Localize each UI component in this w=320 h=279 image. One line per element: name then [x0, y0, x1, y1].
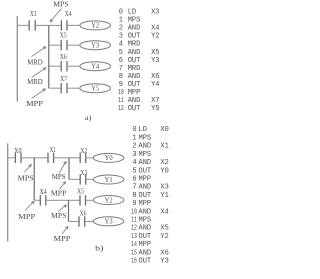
svg-text:MPP: MPP	[51, 189, 67, 198]
svg-text:12: 12	[118, 105, 124, 113]
contact X7	[61, 83, 67, 93]
svg-text:0: 0	[119, 9, 123, 17]
svg-text:X4: X4	[40, 187, 47, 196]
svg-text:5: 5	[119, 49, 123, 57]
svg-text:Y2: Y2	[160, 233, 168, 241]
svg-text:Y3: Y3	[151, 57, 159, 65]
arrow MPS2 to node2 (b)	[59, 162, 66, 174]
wire X0 to X1 through node 1	[21, 157, 48, 159]
svg-text:11: 11	[131, 217, 137, 225]
instruction list (b)	[131, 126, 169, 265]
svg-text:3: 3	[132, 151, 136, 159]
svg-text:2: 2	[119, 25, 123, 33]
wire X2 to coil Y0	[86, 157, 94, 159]
svg-text:16: 16	[131, 258, 137, 266]
svg-text:9: 9	[119, 81, 123, 89]
svg-text:MPP: MPP	[26, 99, 43, 108]
svg-text:MPS: MPS	[53, 0, 69, 8]
svg-text:X5: X5	[151, 49, 159, 57]
svg-text:Y1: Y1	[160, 192, 168, 200]
svg-text:MPP: MPP	[139, 175, 152, 183]
wire X7 to coil Y5	[67, 87, 80, 89]
svg-text:Y3: Y3	[105, 219, 114, 226]
svg-text:MPS: MPS	[139, 134, 152, 142]
arrow MPS1 to node1 (b)	[24, 165, 31, 173]
contact X3 (b)	[80, 174, 86, 184]
svg-text:MRD: MRD	[27, 77, 43, 86]
svg-text:Y0: Y0	[105, 155, 114, 162]
svg-text:AND: AND	[139, 159, 152, 167]
svg-text:AND: AND	[128, 73, 141, 81]
svg-text:X3: X3	[151, 9, 159, 17]
svg-text:X0: X0	[160, 126, 168, 134]
svg-text:X3: X3	[160, 184, 168, 192]
svg-text:8: 8	[132, 192, 136, 200]
svg-text:7: 7	[132, 184, 136, 192]
wire branch to X7	[49, 87, 61, 89]
svg-text:3: 3	[119, 33, 123, 41]
svg-text:X3: X3	[80, 168, 87, 177]
svg-text:X7: X7	[151, 97, 159, 105]
contact X3	[29, 20, 35, 30]
coil Y0	[93, 153, 124, 162]
svg-text:9: 9	[132, 200, 136, 208]
branch stack line 2 (b)	[68, 158, 70, 180]
coil Y2 (b)	[93, 196, 124, 205]
svg-text:4: 4	[119, 41, 123, 49]
svg-text:X6: X6	[80, 209, 87, 218]
svg-text:OUT: OUT	[128, 33, 141, 41]
svg-text:Y3: Y3	[91, 43, 100, 50]
svg-text:AND: AND	[128, 49, 141, 57]
branch stack line (a)	[48, 25, 50, 88]
svg-text:MPP: MPP	[54, 234, 71, 243]
svg-text:X5: X5	[160, 225, 168, 233]
svg-text:MPS: MPS	[52, 172, 66, 181]
branch stack line 3 (b)	[68, 200, 70, 221]
svg-text:13: 13	[131, 233, 137, 241]
svg-text:MPS: MPS	[128, 17, 141, 25]
svg-text:Y3: Y3	[160, 258, 168, 266]
contact X4 (b)	[40, 195, 46, 205]
svg-text:Y4: Y4	[151, 81, 159, 89]
svg-text:X5: X5	[60, 31, 67, 40]
svg-text:15: 15	[131, 249, 137, 257]
svg-text:AND: AND	[128, 97, 141, 105]
arrow MRD2 to branch	[32, 68, 46, 78]
svg-text:1: 1	[119, 17, 123, 25]
left power rail (b)	[7, 143, 9, 241]
svg-text:X5: X5	[77, 187, 84, 196]
svg-text:X1: X1	[50, 145, 57, 154]
svg-text:MRD: MRD	[27, 57, 43, 66]
wire branch to X5	[49, 44, 61, 46]
svg-text:Y1: Y1	[105, 177, 113, 184]
svg-text:X6: X6	[160, 249, 168, 257]
svg-text:X1: X1	[160, 143, 168, 151]
svg-text:AND: AND	[128, 25, 141, 33]
svg-text:MPS: MPS	[18, 173, 34, 182]
svg-text:MPS: MPS	[51, 211, 67, 220]
contact X4	[61, 20, 67, 30]
wire X3 to X4 through node MPS (a)	[35, 24, 61, 26]
svg-text:LD: LD	[128, 9, 136, 17]
svg-text:a): a)	[85, 113, 92, 122]
wire rung1 rail to X3 (a)	[17, 24, 29, 26]
wire branch to X6	[49, 65, 61, 67]
coil Y1	[93, 175, 124, 184]
svg-text:MRD: MRD	[128, 65, 141, 73]
contact X5 (b)	[80, 195, 86, 205]
svg-text:X3: X3	[30, 9, 37, 18]
contact X5	[61, 40, 67, 50]
instruction list (a)	[118, 9, 160, 113]
contact X6	[61, 61, 67, 71]
svg-text:10: 10	[131, 208, 137, 216]
svg-text:MPP: MPP	[139, 241, 152, 249]
svg-text:OUT: OUT	[128, 81, 141, 89]
branch stack line 1 (b)	[33, 158, 35, 201]
svg-text:AND: AND	[139, 208, 152, 216]
wire X4 to coil Y2	[67, 24, 80, 26]
svg-text:Y2: Y2	[105, 197, 114, 204]
left power rail (a)	[16, 16, 18, 102]
svg-text:5: 5	[132, 167, 136, 175]
svg-text:MPS: MPS	[139, 217, 152, 225]
wire X4 to X5 through node 3	[46, 199, 80, 201]
arrow MPP to branch (a)	[32, 89, 46, 99]
arrow MPS3 to node3 (b)	[58, 205, 66, 212]
wire X6 to coil Y3	[85, 221, 94, 223]
svg-text:Y2: Y2	[91, 23, 100, 30]
wire X3 to coil Y1	[86, 178, 94, 180]
svg-text:12: 12	[131, 225, 137, 233]
svg-text:0: 0	[132, 126, 136, 134]
svg-text:Y5: Y5	[91, 86, 100, 93]
svg-text:7: 7	[119, 65, 123, 73]
svg-text:LD: LD	[139, 126, 147, 134]
svg-text:2: 2	[132, 143, 136, 151]
arrow MPP1 to node1 bottom (b)	[25, 201, 34, 210]
coil Y2	[80, 21, 111, 30]
coil Y3 (b)	[93, 217, 124, 226]
svg-text:MRD: MRD	[128, 41, 141, 49]
svg-text:Y4: Y4	[91, 64, 100, 71]
svg-text:6: 6	[132, 175, 136, 183]
svg-text:AND: AND	[139, 225, 152, 233]
svg-text:OUT: OUT	[128, 57, 141, 65]
arrow MPS to branch node (a)	[50, 8, 61, 21]
contact X1	[48, 153, 54, 163]
svg-text:Y5: Y5	[151, 105, 159, 113]
svg-text:AND: AND	[139, 249, 152, 257]
svg-text:Y2: Y2	[151, 33, 159, 41]
svg-text:X2: X2	[80, 146, 87, 155]
svg-text:X7: X7	[60, 74, 67, 83]
wire X1 to X2 through node 2	[54, 157, 81, 159]
svg-text:X4: X4	[160, 208, 168, 216]
svg-text:4: 4	[132, 159, 136, 167]
svg-text:OUT: OUT	[139, 192, 152, 200]
svg-text:8: 8	[119, 73, 123, 81]
wire X5 to coil Y2	[86, 199, 94, 201]
svg-text:OUT: OUT	[128, 105, 141, 113]
svg-text:6: 6	[119, 57, 123, 65]
coil Y5	[80, 84, 111, 93]
wire X5 to coil Y3	[67, 44, 80, 46]
svg-text:X4: X4	[65, 9, 72, 18]
svg-text:14: 14	[131, 241, 137, 249]
svg-text:MPS: MPS	[139, 151, 152, 159]
wire branch2 to X3	[69, 178, 80, 180]
svg-text:MPP: MPP	[139, 200, 152, 208]
arrow MRD1 to branch	[32, 47, 46, 57]
svg-text:AND: AND	[139, 184, 152, 192]
svg-text:1: 1	[132, 134, 136, 142]
arrow MPP2 to node2 bottom (b)	[60, 182, 66, 190]
svg-text:10: 10	[118, 89, 124, 97]
wire branch3 to X6	[69, 221, 80, 223]
svg-text:MPP: MPP	[128, 89, 141, 97]
svg-text:OUT: OUT	[139, 258, 152, 266]
arrow MPP3 to node3 bottom (b)	[62, 226, 68, 234]
contact X2	[80, 153, 86, 163]
svg-text:Y0: Y0	[160, 167, 168, 175]
svg-text:X6: X6	[151, 73, 159, 81]
coil Y3	[80, 41, 111, 50]
wire X6 to coil Y4	[67, 65, 80, 67]
svg-text:11: 11	[118, 97, 124, 105]
svg-text:MPP: MPP	[18, 212, 35, 221]
svg-text:X6: X6	[60, 52, 67, 61]
coil Y4	[80, 62, 111, 71]
wire branch1 to X4	[34, 199, 40, 201]
wire rail to X0	[8, 157, 16, 159]
svg-text:X4: X4	[151, 25, 159, 33]
svg-text:AND: AND	[139, 143, 152, 151]
svg-text:X2: X2	[160, 159, 168, 167]
svg-text:b): b)	[95, 244, 104, 253]
contact X0	[15, 153, 21, 163]
svg-text:OUT: OUT	[139, 233, 152, 241]
svg-text:OUT: OUT	[139, 167, 152, 175]
contact X6 (b)	[79, 216, 85, 226]
